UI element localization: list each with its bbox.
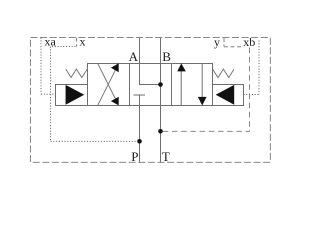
left position arrowhead top [111, 63, 119, 72]
svg-text:A: A [129, 49, 139, 64]
right position up arrow shaft [180, 71, 182, 106]
solenoid a box [56, 85, 88, 106]
port xa enclosure box [52, 38, 77, 47]
solenoid b box [213, 85, 244, 106]
pilot line x vertical to P [50, 47, 52, 142]
svg-text:P: P [131, 149, 138, 164]
outer enclosure dashed border [30, 38, 270, 163]
left position crossed flow paths [98, 63, 117, 105]
left position arrowhead bottom [111, 97, 119, 106]
solenoid b triangle [216, 85, 235, 105]
right position down arrow shaft [201, 63, 203, 97]
drain line y horizontal to T junction [163, 130, 250, 132]
port A line [139, 38, 141, 64]
svg-text:B: B [162, 49, 171, 64]
right position up arrowhead [177, 63, 186, 71]
pilot line xa left vertical [40, 38, 42, 95]
pilot line horizontal to P junction [51, 140, 138, 142]
drain line y vertical [249, 48, 251, 132]
center position blocked P stub [139, 95, 141, 106]
center position A elbow line [140, 64, 161, 85]
port P line [139, 106, 141, 163]
pilot line horizontal into solenoid a [41, 93, 56, 95]
center position blocked P bar [134, 94, 146, 96]
port B line [160, 38, 162, 64]
svg-text:xb: xb [243, 35, 255, 49]
port xb enclosure box [224, 38, 242, 47]
center position B-T through line [160, 64, 162, 106]
svg-text:x: x [80, 35, 86, 49]
junction dot on T [158, 129, 163, 134]
junction dot on P [137, 139, 142, 144]
pilot line horizontal into solenoid b [243, 93, 259, 95]
valve body squares [88, 64, 213, 106]
solenoid a triangle [66, 85, 85, 105]
pilot line xb right vertical [258, 41, 260, 95]
center position junction dot [158, 82, 163, 87]
right position down arrowhead [198, 97, 207, 106]
port T line [160, 106, 162, 163]
svg-text:y: y [214, 35, 220, 49]
spring right [213, 69, 235, 77]
svg-text:T: T [162, 149, 170, 164]
spring left [66, 69, 88, 77]
